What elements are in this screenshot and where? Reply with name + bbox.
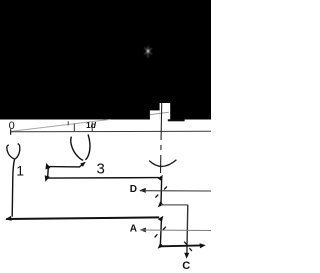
D line [140,190,211,192]
svg-text:C: C [182,260,190,272]
antenna 1 feed line [12,159,15,217]
corner arrow up-right at v1 top [158,175,163,181]
hop tick SW of v3 x A [155,234,158,237]
A line [140,229,211,232]
bracket arrow up [45,163,50,170]
main horizontal axis line [10,130,211,133]
A arrowhead [140,228,146,233]
tick b wavefront to axis [73,124,75,132]
sky photo black band [0,0,211,120]
bracket bottom line to axis point [48,177,159,180]
hop tick NE of v3 x A [163,227,166,230]
wavefront sloped line (left visible part) [11,119,111,131]
svg-text:1d: 1d [86,120,97,130]
antenna cup 1 [7,144,20,159]
svg-text:D: D [130,184,137,195]
dark bar under notch [168,119,185,121]
svg-text:0: 0 [9,120,15,132]
bracket arrow down [45,175,50,182]
hop tick SE of v2 x Cline [189,248,192,251]
delay bracket vertical double arrow [47,166,50,179]
arrow down to C [184,253,189,259]
tick a on wavefront [67,121,69,125]
C feed line [161,244,202,247]
tick under 0 [10,129,12,135]
arrow into cup 3 [80,162,86,167]
hop tick NE of v1 x D [164,187,167,190]
svg-text:1: 1 [16,163,24,179]
signal line v1 [160,176,163,204]
bracket top line to cup 3 [48,163,83,167]
corner arrow up-right at bold line end [158,216,163,222]
optical axis dash-dot [161,103,162,173]
bold line from antenna 1 [6,217,159,219]
gray link line to v2 [161,204,188,206]
wavefront sloped line (in notch) [150,112,169,114]
tick c wavefront to axis [91,122,93,131]
corner arrow down-left at v3 bottom [158,243,164,249]
corner arrow down-left at v1 bottom [158,201,164,207]
antenna cup 3 [71,134,90,160]
svg-text:A: A [130,224,137,235]
svg-text:3: 3 [97,160,105,177]
signal line v2 [186,205,189,254]
mirror arc [149,160,176,167]
hop tick SW of v1 x D [155,195,158,198]
signal line v3 [160,218,161,245]
C feed right arrow [200,243,206,248]
D arrowhead [139,188,145,193]
white notch in photo [160,103,171,120]
hop tick NW of v2 x Cline [184,242,187,245]
corner arrow left at line start [5,216,11,221]
